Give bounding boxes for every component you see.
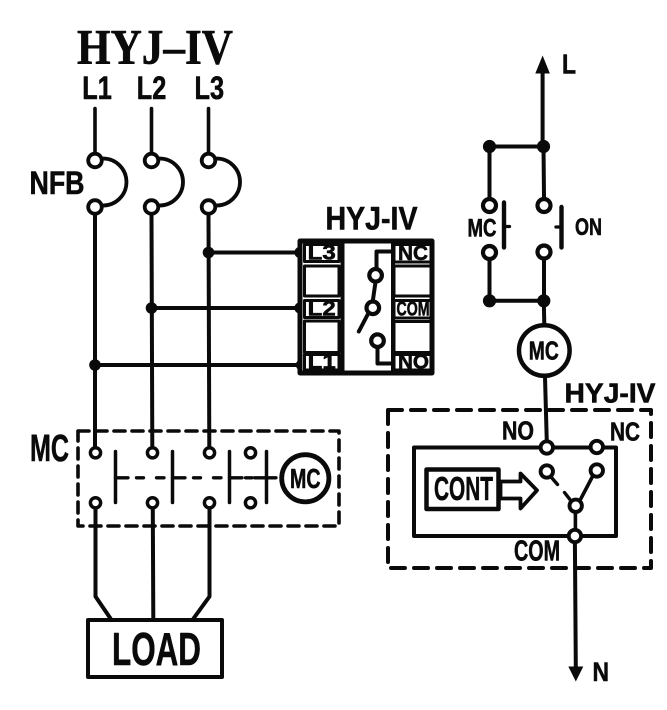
junction relay L3 terminal xyxy=(294,247,305,258)
timer inner box xyxy=(414,448,616,537)
svg-text:HYJ–IV: HYJ–IV xyxy=(77,19,233,75)
arrow N (neutral) xyxy=(568,667,583,682)
wire L2 to relay xyxy=(152,306,301,310)
terminal NO upper xyxy=(541,441,553,453)
terminal NC lower xyxy=(591,464,603,476)
wire L3 stub xyxy=(207,109,211,153)
arrow L (line input) xyxy=(541,71,545,147)
junction relay L1 terminal xyxy=(296,359,307,370)
junction bottom right xyxy=(537,294,550,307)
wire COM link xyxy=(574,513,578,530)
wire ON branch upper xyxy=(542,147,547,198)
wire bottom rung xyxy=(490,299,544,303)
relay U1 outer box xyxy=(300,241,432,373)
junction L1 xyxy=(89,359,101,371)
LOAD box xyxy=(88,620,222,677)
svg-text:COM: COM xyxy=(514,536,560,568)
coil MC (control) xyxy=(519,325,570,376)
relay strip left border xyxy=(341,241,345,373)
junction L2 xyxy=(146,302,158,314)
CONT box xyxy=(427,470,499,510)
wire L3 to relay xyxy=(209,251,301,255)
junction top left xyxy=(483,140,496,153)
wire top rung xyxy=(490,145,544,149)
wire ON branch lower xyxy=(542,260,546,301)
terminal NO lower xyxy=(541,465,553,477)
wire L2 vertical xyxy=(150,215,155,446)
wire to coil xyxy=(542,301,547,325)
relay terminal box L1 xyxy=(305,355,340,371)
svg-text:CONT: CONT xyxy=(434,470,493,507)
svg-text:LOAD: LOAD xyxy=(112,623,201,675)
svg-text:NC: NC xyxy=(398,242,428,265)
svg-text:MC: MC xyxy=(468,215,497,243)
wire coil to NO xyxy=(545,377,547,442)
wire L1 stub xyxy=(93,109,97,153)
junction relay L2 terminal xyxy=(294,302,305,313)
wire pole1 to LOAD xyxy=(96,510,111,619)
contact MC holding xyxy=(483,199,496,212)
terminal COM inner xyxy=(570,500,582,512)
linkage dash-dot line xyxy=(116,476,277,479)
relay contact NO point xyxy=(371,334,384,347)
coil MC (contactor) xyxy=(282,455,329,502)
svg-text:MC: MC xyxy=(529,338,559,366)
relay terminal box L2 xyxy=(305,301,340,318)
relay terminal box COM xyxy=(394,301,432,319)
svg-text:HYJ-IV: HYJ-IV xyxy=(326,201,418,237)
junction bottom left xyxy=(483,294,496,307)
wire pole3 to LOAD xyxy=(194,510,210,619)
relay contact bottom lead xyxy=(378,349,392,364)
svg-text:L2: L2 xyxy=(137,70,167,106)
relay blank box right upper xyxy=(394,266,432,296)
wire L2 stub xyxy=(150,109,154,153)
svg-text:L3: L3 xyxy=(308,242,336,265)
relay contact blade xyxy=(359,313,369,332)
svg-text:L: L xyxy=(562,49,576,80)
wire pole2 to LOAD xyxy=(151,510,156,619)
terminal NC upper xyxy=(591,441,603,453)
pushbutton ON xyxy=(538,199,551,212)
svg-text:COM: COM xyxy=(397,298,430,321)
relay terminal box NC xyxy=(394,245,432,263)
svg-text:NO: NO xyxy=(398,351,429,374)
svg-text:L3: L3 xyxy=(195,70,225,106)
svg-text:MC: MC xyxy=(30,428,69,470)
breaker NFB pole 3 xyxy=(202,154,240,214)
svg-text:NO: NO xyxy=(502,416,534,446)
wire MC branch upper xyxy=(488,147,492,198)
terminal COM outer xyxy=(569,530,581,542)
relay contact top lead xyxy=(377,252,392,269)
svg-text:L2: L2 xyxy=(308,298,336,321)
junction top right xyxy=(537,140,550,153)
relay blank box left upper xyxy=(305,266,340,296)
blade NC (closed) xyxy=(581,477,593,499)
breaker NFB pole 1 xyxy=(88,154,126,214)
relay strip right border xyxy=(391,241,395,373)
svg-text:NFB: NFB xyxy=(30,165,85,201)
svg-text:L1: L1 xyxy=(82,70,112,106)
relay blank box left lower xyxy=(305,321,340,353)
svg-text:ON: ON xyxy=(575,214,602,241)
breaker NFB pole 2 xyxy=(145,154,183,214)
contactor pole 3 xyxy=(204,448,229,508)
wire L1 to relay xyxy=(95,363,301,367)
svg-text:MC: MC xyxy=(290,463,321,494)
block arrow xyxy=(501,474,538,509)
contactor pole 2 xyxy=(147,448,172,508)
contactor aux pole 4 xyxy=(245,448,266,508)
relay contact NC point xyxy=(369,269,382,282)
contactor MC dashed box xyxy=(78,431,339,526)
wire L3 vertical xyxy=(207,215,212,446)
wire contact link xyxy=(373,284,375,300)
svg-text:NC: NC xyxy=(610,417,640,447)
svg-text:L1: L1 xyxy=(308,351,336,374)
contactor pole 1 xyxy=(90,448,115,508)
relay terminal box NO xyxy=(394,355,432,371)
wire MC branch lower xyxy=(488,261,492,301)
wire L1 vertical xyxy=(93,215,97,446)
relay blank box right lower xyxy=(394,322,432,353)
svg-text:HYJ-IV: HYJ-IV xyxy=(565,378,656,409)
blade NO (open, dashed) xyxy=(552,478,570,500)
relay terminal box L3 xyxy=(305,245,340,262)
svg-text:N: N xyxy=(593,657,610,687)
timer dashed box xyxy=(388,410,651,568)
junction L3 xyxy=(203,247,215,259)
relay contact COM point xyxy=(367,302,380,315)
wire COM to N xyxy=(573,543,578,667)
